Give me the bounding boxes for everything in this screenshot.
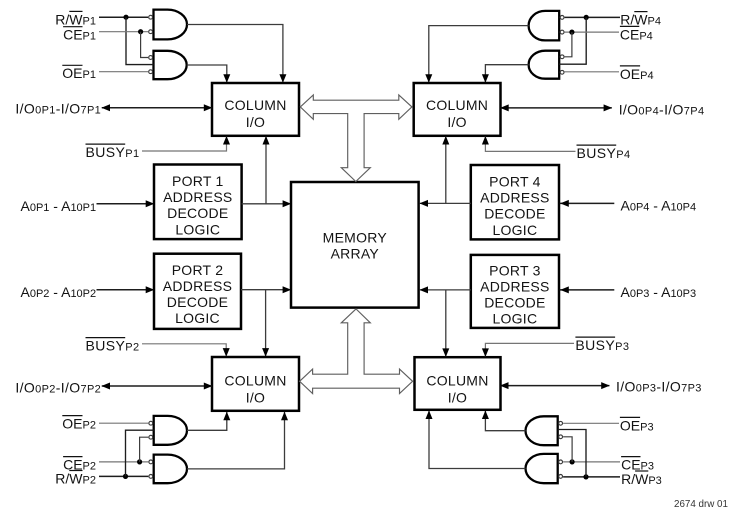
- svg-text:MEMORY: MEMORY: [323, 230, 388, 246]
- wire I/O0P1-I/O7P1 bidirectional bus: [102, 107, 212, 109]
- wire address branch to COLUMN I/O 4: [445, 137, 447, 204]
- label CEP4: [620, 26, 653, 42]
- wire OEP3 to G7 input: [563, 422, 619, 424]
- wire address branch to COLUMN I/O 1: [265, 137, 267, 204]
- block COLUMN I/O port 3 (U-CIO3): [415, 357, 501, 410]
- wire R/WP2 to G4 input: [99, 475, 148, 477]
- wire CEP1 branch to G2 input: [141, 32, 149, 58]
- wire G7 output to COLUMN I/O 3: [485, 411, 525, 431]
- wire OEP1 to G2 input: [99, 71, 148, 73]
- wire PORT 4 decoder to MEMORY ARRAY: [420, 202, 471, 204]
- label BUSYP4: [577, 145, 631, 161]
- wire PORT 3 decoder to MEMORY ARRAY: [420, 289, 471, 291]
- wire A0P2-A10P2 to PORT 2 decoder: [97, 289, 154, 291]
- and-gate G8 (port 3 write control): [526, 454, 563, 483]
- svg-text:LOGIC: LOGIC: [492, 222, 537, 238]
- wire CEP4 branch to G6 input: [565, 32, 572, 57]
- wire G3 output to COLUMN I/O 2: [187, 412, 227, 430]
- svg-text:I/O: I/O: [246, 389, 265, 405]
- svg-text:PORT 3: PORT 3: [489, 262, 541, 278]
- label R/WP1: [55, 11, 96, 27]
- label BUSYP3: [575, 337, 629, 353]
- label CEP3: [621, 457, 654, 473]
- label A0P2 - A10P2: [21, 284, 97, 300]
- wire PORT 2 decoder to MEMORY ARRAY: [241, 289, 290, 291]
- svg-text:DECODE: DECODE: [484, 206, 545, 222]
- wire address branch to COLUMN I/O 3: [445, 290, 447, 357]
- svg-text:COLUMN: COLUMN: [426, 97, 488, 113]
- svg-text:DECODE: DECODE: [484, 295, 545, 311]
- svg-text:LOGIC: LOGIC: [492, 311, 537, 327]
- svg-text:ADDRESS: ADDRESS: [480, 190, 549, 206]
- svg-text:PORT 1: PORT 1: [172, 173, 224, 189]
- label OEP1: [62, 65, 96, 81]
- wire G2 output to COLUMN I/O 1: [187, 65, 227, 82]
- svg-text:LOGIC: LOGIC: [175, 310, 220, 326]
- hollow bus arrow bottom (COLUMN I/O 2 - COLUMN I/O 3 - MEMORY ARRAY): [300, 309, 413, 394]
- block PORT 3 ADDRESS DECODE LOGIC: [471, 255, 559, 328]
- and-gate G1 (port 1 write control): [149, 10, 187, 40]
- wire BUSYP4 to COLUMN I/O 4: [485, 137, 575, 152]
- wire R/WP1 to G1 input: [99, 16, 148, 18]
- svg-text:ADDRESS: ADDRESS: [163, 278, 232, 294]
- block COLUMN I/O port 2 (U-CIO2): [212, 357, 299, 411]
- wire R/WP3 branch to G7 middle input: [558, 430, 586, 477]
- label R/WP2: [55, 470, 96, 486]
- junction dot R/WP1: [123, 15, 128, 20]
- wire G1 output to COLUMN I/O 1: [187, 25, 283, 83]
- wire I/O0P3-I/O7P3 bidirectional bus: [500, 385, 609, 387]
- wire G5 output to COLUMN I/O 4: [429, 26, 529, 82]
- label BUSYP1: [86, 144, 140, 160]
- label CEP2: [63, 457, 96, 473]
- wire R/WP2 branch to G3 middle input: [126, 430, 154, 476]
- label I/O0P4-I/O7P4: [619, 101, 705, 117]
- junction dot CEP2: [137, 459, 142, 464]
- wire A0P4-A10P4 to PORT 4 decoder: [560, 202, 615, 204]
- wire G4 output to COLUMN I/O 2: [187, 412, 285, 469]
- wire BUSYP3 to COLUMN I/O 3: [485, 343, 574, 356]
- wire CEP1 to G1 input: [99, 31, 148, 33]
- wire CEP4 to G5 input: [565, 31, 619, 33]
- wire CEP3 to G8 input: [563, 461, 620, 463]
- junction dot CEP3: [570, 459, 575, 464]
- block PORT 4 ADDRESS DECODE LOGIC: [471, 165, 559, 239]
- label OEP3: [620, 417, 654, 433]
- wire I/O0P2-I/O7P2 bidirectional bus: [102, 385, 212, 387]
- label A0P1 - A10P1: [21, 198, 97, 214]
- label A0P3 - A10P3: [621, 284, 697, 300]
- wire A0P1-A10P1 to PORT 1 decoder: [97, 203, 154, 205]
- wire I/O0P4-I/O7P4 bidirectional bus: [501, 107, 612, 109]
- wire address branch to COLUMN I/O 2: [265, 290, 267, 356]
- wire R/WP4 branch to G6 middle input: [559, 17, 586, 64]
- block MEMORY ARRAY: [291, 182, 419, 308]
- wire R/WP3 to G8 input: [563, 476, 620, 478]
- svg-text:I/O: I/O: [447, 114, 466, 130]
- wire A0P3-A10P3 to PORT 3 decoder: [560, 289, 615, 291]
- svg-text:PORT 4: PORT 4: [489, 174, 541, 190]
- svg-text:PORT 2: PORT 2: [172, 262, 224, 278]
- wire R/WP1 branch to G2 middle input: [126, 17, 154, 64]
- label A0P4 - A10P4: [621, 198, 697, 214]
- block COLUMN I/O port 1 (U-CIO1): [212, 83, 299, 136]
- hollow bus arrow top (COLUMN I/O 1 - COLUMN I/O 4 - MEMORY ARRAY): [300, 95, 412, 182]
- label CEP1: [63, 27, 96, 43]
- label OEP4: [620, 66, 654, 82]
- junction dot R/WP4: [584, 15, 589, 20]
- junction dot R/WP3: [583, 474, 588, 479]
- label R/WP3: [621, 471, 662, 487]
- svg-text:I/O: I/O: [246, 114, 265, 130]
- label I/O0P2-I/O7P2: [15, 380, 101, 396]
- wire CEP2 branch to G3 input: [140, 437, 149, 462]
- and-gate G4 (port 2 write control): [149, 455, 187, 484]
- svg-text:DECODE: DECODE: [167, 205, 228, 221]
- svg-text:ADDRESS: ADDRESS: [163, 189, 232, 205]
- wire OEP2 to G3 input: [99, 422, 148, 424]
- and-gate G7 (port 3 output enable): [526, 416, 563, 445]
- wire BUSYP2 to COLUMN I/O 2: [142, 344, 226, 356]
- label R/WP4: [620, 12, 661, 28]
- svg-text:ADDRESS: ADDRESS: [480, 279, 549, 295]
- and-gate G6 (port 4 output enable): [529, 51, 564, 79]
- and-gate G5 (port 4 write control): [529, 11, 564, 41]
- block COLUMN I/O port 4 (U-CIO4): [414, 83, 501, 136]
- svg-text:2674 drw 01: 2674 drw 01: [674, 499, 728, 510]
- label I/O0P1-I/O7P1: [15, 101, 101, 117]
- wire G6 output to COLUMN I/O 4: [485, 65, 528, 82]
- wire CEP3 branch to G7 input: [563, 437, 572, 462]
- label BUSYP2: [86, 338, 140, 354]
- svg-text:I/O: I/O: [448, 389, 467, 405]
- svg-text:COLUMN: COLUMN: [224, 97, 286, 113]
- and-gate G2 (port 1 output enable): [149, 51, 187, 79]
- wire PORT 1 decoder to MEMORY ARRAY: [242, 203, 290, 205]
- label I/O0P3-I/O7P3: [616, 379, 702, 395]
- junction dot R/WP2: [123, 474, 128, 479]
- wire R/WP4 to G5 input: [565, 16, 620, 18]
- wire OEP4 to G6 input: [565, 71, 619, 73]
- wire G8 output to COLUMN I/O 3: [429, 411, 526, 469]
- and-gate G3 (port 2 output enable): [149, 416, 187, 445]
- junction dot CEP1: [138, 29, 143, 34]
- svg-text:ARRAY: ARRAY: [331, 245, 380, 261]
- svg-text:COLUMN: COLUMN: [426, 373, 488, 389]
- svg-text:LOGIC: LOGIC: [175, 221, 220, 237]
- svg-text:COLUMN: COLUMN: [224, 373, 286, 389]
- wire CEP2 to G4 input: [99, 461, 148, 463]
- svg-text:DECODE: DECODE: [167, 294, 228, 310]
- block PORT 2 ADDRESS DECODE LOGIC: [154, 254, 241, 329]
- junction dot CEP4: [569, 29, 574, 34]
- block PORT 1 ADDRESS DECODE LOGIC: [154, 165, 242, 240]
- wire BUSYP1 to COLUMN I/O 1: [142, 137, 227, 152]
- label OEP2: [62, 416, 96, 432]
